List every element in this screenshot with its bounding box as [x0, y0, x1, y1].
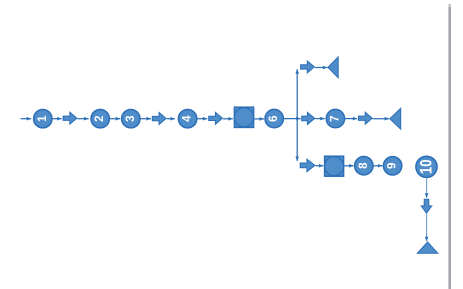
- node 3 (circle): [122, 110, 140, 128]
- node 10 (circle, larger): [416, 156, 437, 177]
- block arrow F: [359, 112, 373, 124]
- node 4 (circle): [178, 110, 196, 128]
- wire: node 10 down to block arrow H: [426, 178, 428, 198]
- wire: block arrow B to node 4: [167, 118, 175, 120]
- svg-text:10: 10: [418, 159, 436, 174]
- node 8 (circle): [355, 157, 373, 175]
- wire: node 3 to block arrow B: [141, 118, 152, 120]
- wire: node 7 to block arrow F: [345, 118, 357, 120]
- block arrow A: [63, 112, 77, 124]
- wire: node 11 to node 8: [344, 165, 354, 167]
- svg-text:9: 9: [387, 163, 399, 169]
- wire: block arrow F to triangle T2: [373, 118, 389, 120]
- node 2 (circle): [91, 110, 109, 128]
- node 5 (square with inscribed circle): [234, 107, 253, 127]
- triangle T1 (left-pointing, top branch): [328, 57, 338, 78]
- wire: node 2 to node 3: [110, 118, 120, 120]
- block arrow H (down-pointing): [421, 199, 432, 213]
- triangle T2 (left-pointing, middle branch): [390, 108, 401, 129]
- svg-text:4: 4: [182, 115, 194, 122]
- wire: block arrow G to node 11: [315, 165, 323, 167]
- wire: node 5 to node 6: [254, 118, 264, 120]
- node 11 (square with inscribed circle, bottom branch): [325, 156, 344, 176]
- node 1 (circle): [34, 110, 52, 128]
- node 7 (circle): [326, 109, 344, 127]
- svg-text:3: 3: [125, 115, 137, 121]
- svg-text:7: 7: [329, 115, 341, 121]
- block arrow B: [152, 113, 166, 125]
- block arrow G (bottom branch): [300, 159, 315, 172]
- wire: block arrow C to node 5: [223, 118, 233, 120]
- block arrow C: [209, 112, 223, 124]
- block arrow E (top branch): [301, 61, 315, 73]
- wire: vertical branch up from junction with up arrowhead: [296, 69, 298, 118]
- node 9 (circle): [383, 157, 401, 175]
- wire: vertical branch down from junction with down arrowhead: [296, 119, 298, 161]
- wire: node 6 to block arrow D (crosses vertical branch line): [284, 118, 301, 120]
- wire: block arrow E to triangle T1: [315, 67, 327, 69]
- svg-text:1: 1: [37, 115, 49, 122]
- wire: block arrow A to node 2: [78, 118, 89, 120]
- triangle T3 (up-pointing, bottom): [417, 242, 438, 253]
- node 6 (circle): [265, 109, 283, 127]
- svg-text:2: 2: [94, 115, 106, 121]
- svg-text:6: 6: [268, 115, 280, 121]
- wire: block arrow H down to triangle T3: [426, 214, 428, 241]
- wire: incoming connector into node 1: [21, 118, 32, 120]
- wire: node 4 to block arrow C: [197, 118, 207, 120]
- wire: node 1 to block arrow A: [53, 118, 62, 120]
- page edge shadow (gray vertical line at right): [448, 4, 451, 289]
- wire: block arrow D to node 7: [315, 118, 324, 120]
- block arrow D (middle branch after junction): [302, 112, 315, 124]
- wire: node 8 to node 9: [373, 165, 382, 167]
- svg-text:8: 8: [358, 162, 370, 169]
